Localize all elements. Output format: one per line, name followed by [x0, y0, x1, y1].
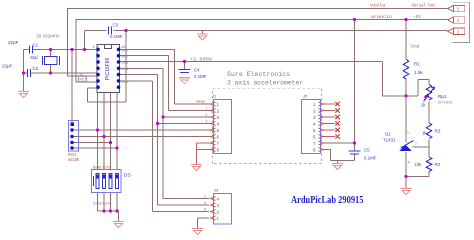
- wire J2 pin7 to C5 top: [323, 142, 355, 144]
- resistor R1: [403, 60, 409, 79]
- wire pot bottom to R3 top: [428, 102, 430, 124]
- svg-text:Vref: Vref: [122, 61, 128, 65]
- svg-text:8: 8: [204, 208, 206, 212]
- svg-text:20 turns: 20 turns: [438, 100, 452, 105]
- op-amp U2 TL431: [400, 141, 414, 152]
- svg-text:DS: DS: [124, 173, 131, 179]
- svg-text:10k: 10k: [415, 162, 423, 167]
- svg-text:+5V: +5V: [413, 14, 421, 20]
- wire R1 bottom node to TL431: [405, 79, 407, 143]
- wire J2 pin2 stub to NC: [323, 110, 336, 112]
- svg-text:3: 3: [204, 201, 206, 205]
- svg-text:4x10k: 4x10k: [68, 157, 80, 162]
- wire crystal row OSC1 / C1: [24, 49, 98, 51]
- svg-text:4: 4: [313, 121, 316, 126]
- wire +5V drop to R1: [405, 20, 407, 60]
- svg-text:5: 5: [217, 128, 220, 133]
- svg-text:R2: R2: [435, 162, 441, 167]
- wire C5 bottom lead: [354, 154, 356, 161]
- svg-text:1: 1: [415, 142, 417, 146]
- svg-text:1: 1: [217, 102, 220, 107]
- svg-text:An0: An0: [122, 48, 128, 52]
- wire crystal top branch: [50, 50, 52, 57]
- wire J1 pin8 to ground: [197, 150, 211, 165]
- serial connector pin 4: [448, 17, 465, 23]
- svg-text:C2: C2: [33, 66, 39, 71]
- svg-text:viola: viola: [370, 3, 386, 9]
- svg-text:4: 4: [457, 18, 460, 23]
- serial connector pin 2: [448, 28, 465, 34]
- resistor R3: [426, 123, 432, 139]
- wire RS1 row3: [72, 142, 111, 144]
- svg-text:An2: An2: [122, 55, 128, 59]
- svg-text:1k: 1k: [421, 103, 426, 108]
- svg-text:S1 S2 S3 S4: S1 S2 S3 S4: [93, 202, 111, 206]
- wire TL431 ref to R3/R2 node: [413, 146, 430, 148]
- wire PIC to DS switch column 2: [103, 93, 105, 170]
- wire serial rail 2 (arancio / +5V): [76, 20, 448, 83]
- capacitor C3: [109, 27, 112, 35]
- wire C3 ground stem: [202, 31, 204, 34]
- svg-text:2: 2: [457, 30, 460, 35]
- wire node to potentiometer top: [406, 80, 429, 96]
- svg-text:18.432MHz: 18.432MHz: [36, 34, 60, 39]
- wire crystal bottom branch: [50, 65, 52, 74]
- svg-text:1: 1: [206, 107, 208, 111]
- ground (C4): [179, 78, 190, 84]
- ground (J3): [192, 229, 203, 235]
- svg-text:7: 7: [217, 141, 220, 146]
- svg-text:8: 8: [217, 147, 220, 152]
- wire TL431 anode to bottom node: [405, 152, 407, 177]
- capacitor C5: [349, 151, 361, 154]
- svg-text:Xtal: Xtal: [30, 55, 38, 60]
- svg-text:J2: J2: [303, 94, 308, 99]
- svg-text:7: 7: [313, 141, 316, 146]
- svg-text:RC2: RC2: [122, 80, 129, 84]
- microcontroller U1 PIC16F88: [93, 44, 127, 93]
- ground (J1): [191, 165, 202, 171]
- svg-text:Serial Out: Serial Out: [412, 3, 436, 9]
- svg-text:+2.600V: +2.600V: [190, 58, 212, 63]
- svg-text:C5: C5: [364, 148, 370, 153]
- svg-text:4: 4: [217, 196, 220, 201]
- svg-text:R1: R1: [414, 62, 420, 67]
- wire RS1 row2 to J1 pin6: [72, 136, 211, 138]
- wire left ground drop: [23, 50, 25, 92]
- svg-text:8: 8: [313, 147, 316, 152]
- wire RS1 row4: [72, 147, 117, 149]
- wire DS ground bus: [98, 211, 119, 221]
- svg-text:Gnd: Gnd: [411, 44, 420, 50]
- wire DS bottom pins to bus: [98, 193, 118, 212]
- crystal X1: [43, 56, 60, 65]
- wire serial rail 1 (viola / Serial Out): [67, 9, 448, 77]
- connector J1: [196, 94, 232, 154]
- ground (left, crystal): [18, 92, 29, 98]
- svg-text:0.1MF: 0.1MF: [110, 34, 123, 39]
- svg-text:3 axis accelerometer: 3 axis accelerometer: [227, 80, 303, 87]
- wire bottom node to R2 bottom: [406, 172, 429, 177]
- svg-text:J3: J3: [214, 188, 219, 193]
- serial connector pin 3: [448, 5, 465, 11]
- svg-text:C3: C3: [113, 23, 119, 28]
- wire crystal row OSC2 / C2: [24, 72, 98, 74]
- svg-text:6: 6: [313, 134, 316, 139]
- capacitor C1: [30, 46, 33, 54]
- svg-text:C4: C4: [194, 68, 200, 73]
- svg-text:R3: R3: [435, 129, 441, 134]
- ground (DS): [113, 222, 124, 228]
- resistor network RS1: [68, 121, 80, 163]
- connector J3: [204, 188, 232, 225]
- wire +2.600V rail: [120, 62, 407, 96]
- wire C4 top lead: [184, 62, 186, 70]
- svg-text:TL431: TL431: [383, 138, 396, 143]
- svg-text:1.5k: 1.5k: [414, 70, 423, 75]
- svg-text:3: 3: [217, 115, 220, 120]
- svg-text:3: 3: [206, 120, 208, 124]
- connector J2: [302, 94, 324, 154]
- svg-text:1k: 1k: [422, 131, 427, 136]
- wire An4 to J1 pin3 and J3 pin4: [120, 68, 211, 198]
- svg-text:0.1MF: 0.1MF: [194, 74, 207, 79]
- serial out connector bracket: [453, 2, 470, 42]
- svg-text:4: 4: [217, 121, 220, 126]
- wire PIC to DS switch column 1: [97, 93, 99, 170]
- wire RB to J1 pin4 and J3 pin3: [120, 75, 211, 205]
- wire PIC to DS switch column 4: [116, 93, 118, 170]
- svg-text:ArduPicLab 290915: ArduPicLab 290915: [291, 195, 364, 206]
- svg-text:2: 2: [204, 195, 206, 199]
- svg-text:1: 1: [313, 102, 316, 107]
- svg-text:2: 2: [206, 113, 208, 117]
- svg-text:u: u: [408, 131, 410, 135]
- no-connect X marks on J2 pins: [336, 102, 340, 139]
- potentiometer Rp1: [424, 85, 435, 102]
- wire PIC to DS switch column 3: [110, 93, 112, 170]
- wire J1 pin7 to ground: [197, 143, 211, 150]
- wire J2 pin1 stub to NC: [323, 103, 336, 105]
- capacitor C2: [28, 69, 31, 77]
- svg-text:3: 3: [217, 203, 220, 208]
- svg-text:0.1MF: 0.1MF: [364, 156, 377, 161]
- svg-text:Sure Electronics: Sure Electronics: [227, 71, 290, 78]
- svg-text:C1: C1: [33, 43, 39, 48]
- wire +5V drop to J2 pin7 / C5: [354, 20, 356, 144]
- svg-text:2: 2: [313, 108, 316, 113]
- svg-text:RC7: RC7: [80, 78, 87, 82]
- svg-text:U2: U2: [385, 132, 391, 137]
- svg-text:3: 3: [313, 115, 316, 120]
- wire J2 pin4 stub to NC: [323, 123, 336, 125]
- resistor R2: [426, 157, 432, 171]
- svg-text:A: A: [408, 161, 411, 165]
- wire RC2 to J3 pin2: [120, 81, 210, 212]
- wire RS1 common pull-up: [71, 50, 73, 123]
- svg-text:Rp1: Rp1: [438, 94, 447, 99]
- ground (J2 / C5): [332, 164, 343, 170]
- svg-text:B0 B1 B2 B3: B0 B1 B2 B3: [93, 166, 111, 170]
- wire J2 pin6 stub to NC: [323, 136, 336, 138]
- svg-text:arancio: arancio: [371, 14, 392, 20]
- svg-text:1: 1: [93, 44, 96, 49]
- svg-text:An4: An4: [122, 67, 128, 71]
- svg-text:6: 6: [217, 134, 220, 139]
- capacitor C4: [179, 69, 191, 72]
- accelerometer module dashed box: [213, 88, 322, 163]
- ground (rail3 mid): [197, 34, 208, 40]
- wire bottom node ground stem: [405, 177, 407, 189]
- wire An0 to J1 pin1: [120, 50, 211, 105]
- wire RS1 row1 to J1 pin5: [72, 129, 211, 131]
- dip switch DS: [92, 166, 131, 206]
- wire R3 bottom to R2 top: [428, 140, 430, 158]
- svg-text:22pF: 22pF: [8, 40, 19, 45]
- svg-text:Tx: Tx: [79, 73, 83, 77]
- svg-text:2: 2: [217, 209, 220, 214]
- svg-text:2: 2: [217, 108, 220, 113]
- wire J2 pin8 to ground run: [323, 150, 355, 164]
- svg-text:sleep: sleep: [196, 100, 205, 104]
- wire An2 to J1 pin2: [120, 56, 211, 111]
- wire gnd drop from rail3 to PIC Vss loop: [88, 31, 127, 102]
- wire ground rail 3: [85, 31, 448, 50]
- wire C5 top lead: [354, 143, 356, 151]
- svg-text:22pF: 22pF: [2, 64, 13, 69]
- red connector stub wires: [197, 104, 336, 164]
- wire J2 pin3 stub to NC: [323, 116, 336, 118]
- wire J2 pin5 stub to NC: [323, 129, 336, 131]
- wire J3 pin1 to ground: [198, 218, 210, 228]
- svg-text:PIC16F88: PIC16F88: [105, 58, 111, 81]
- ground (U2 bottom): [401, 189, 412, 195]
- svg-text:1: 1: [217, 216, 220, 221]
- svg-text:5: 5: [313, 128, 316, 133]
- svg-text:3: 3: [457, 7, 460, 12]
- pin label Tx and RC7 box: [79, 73, 87, 82]
